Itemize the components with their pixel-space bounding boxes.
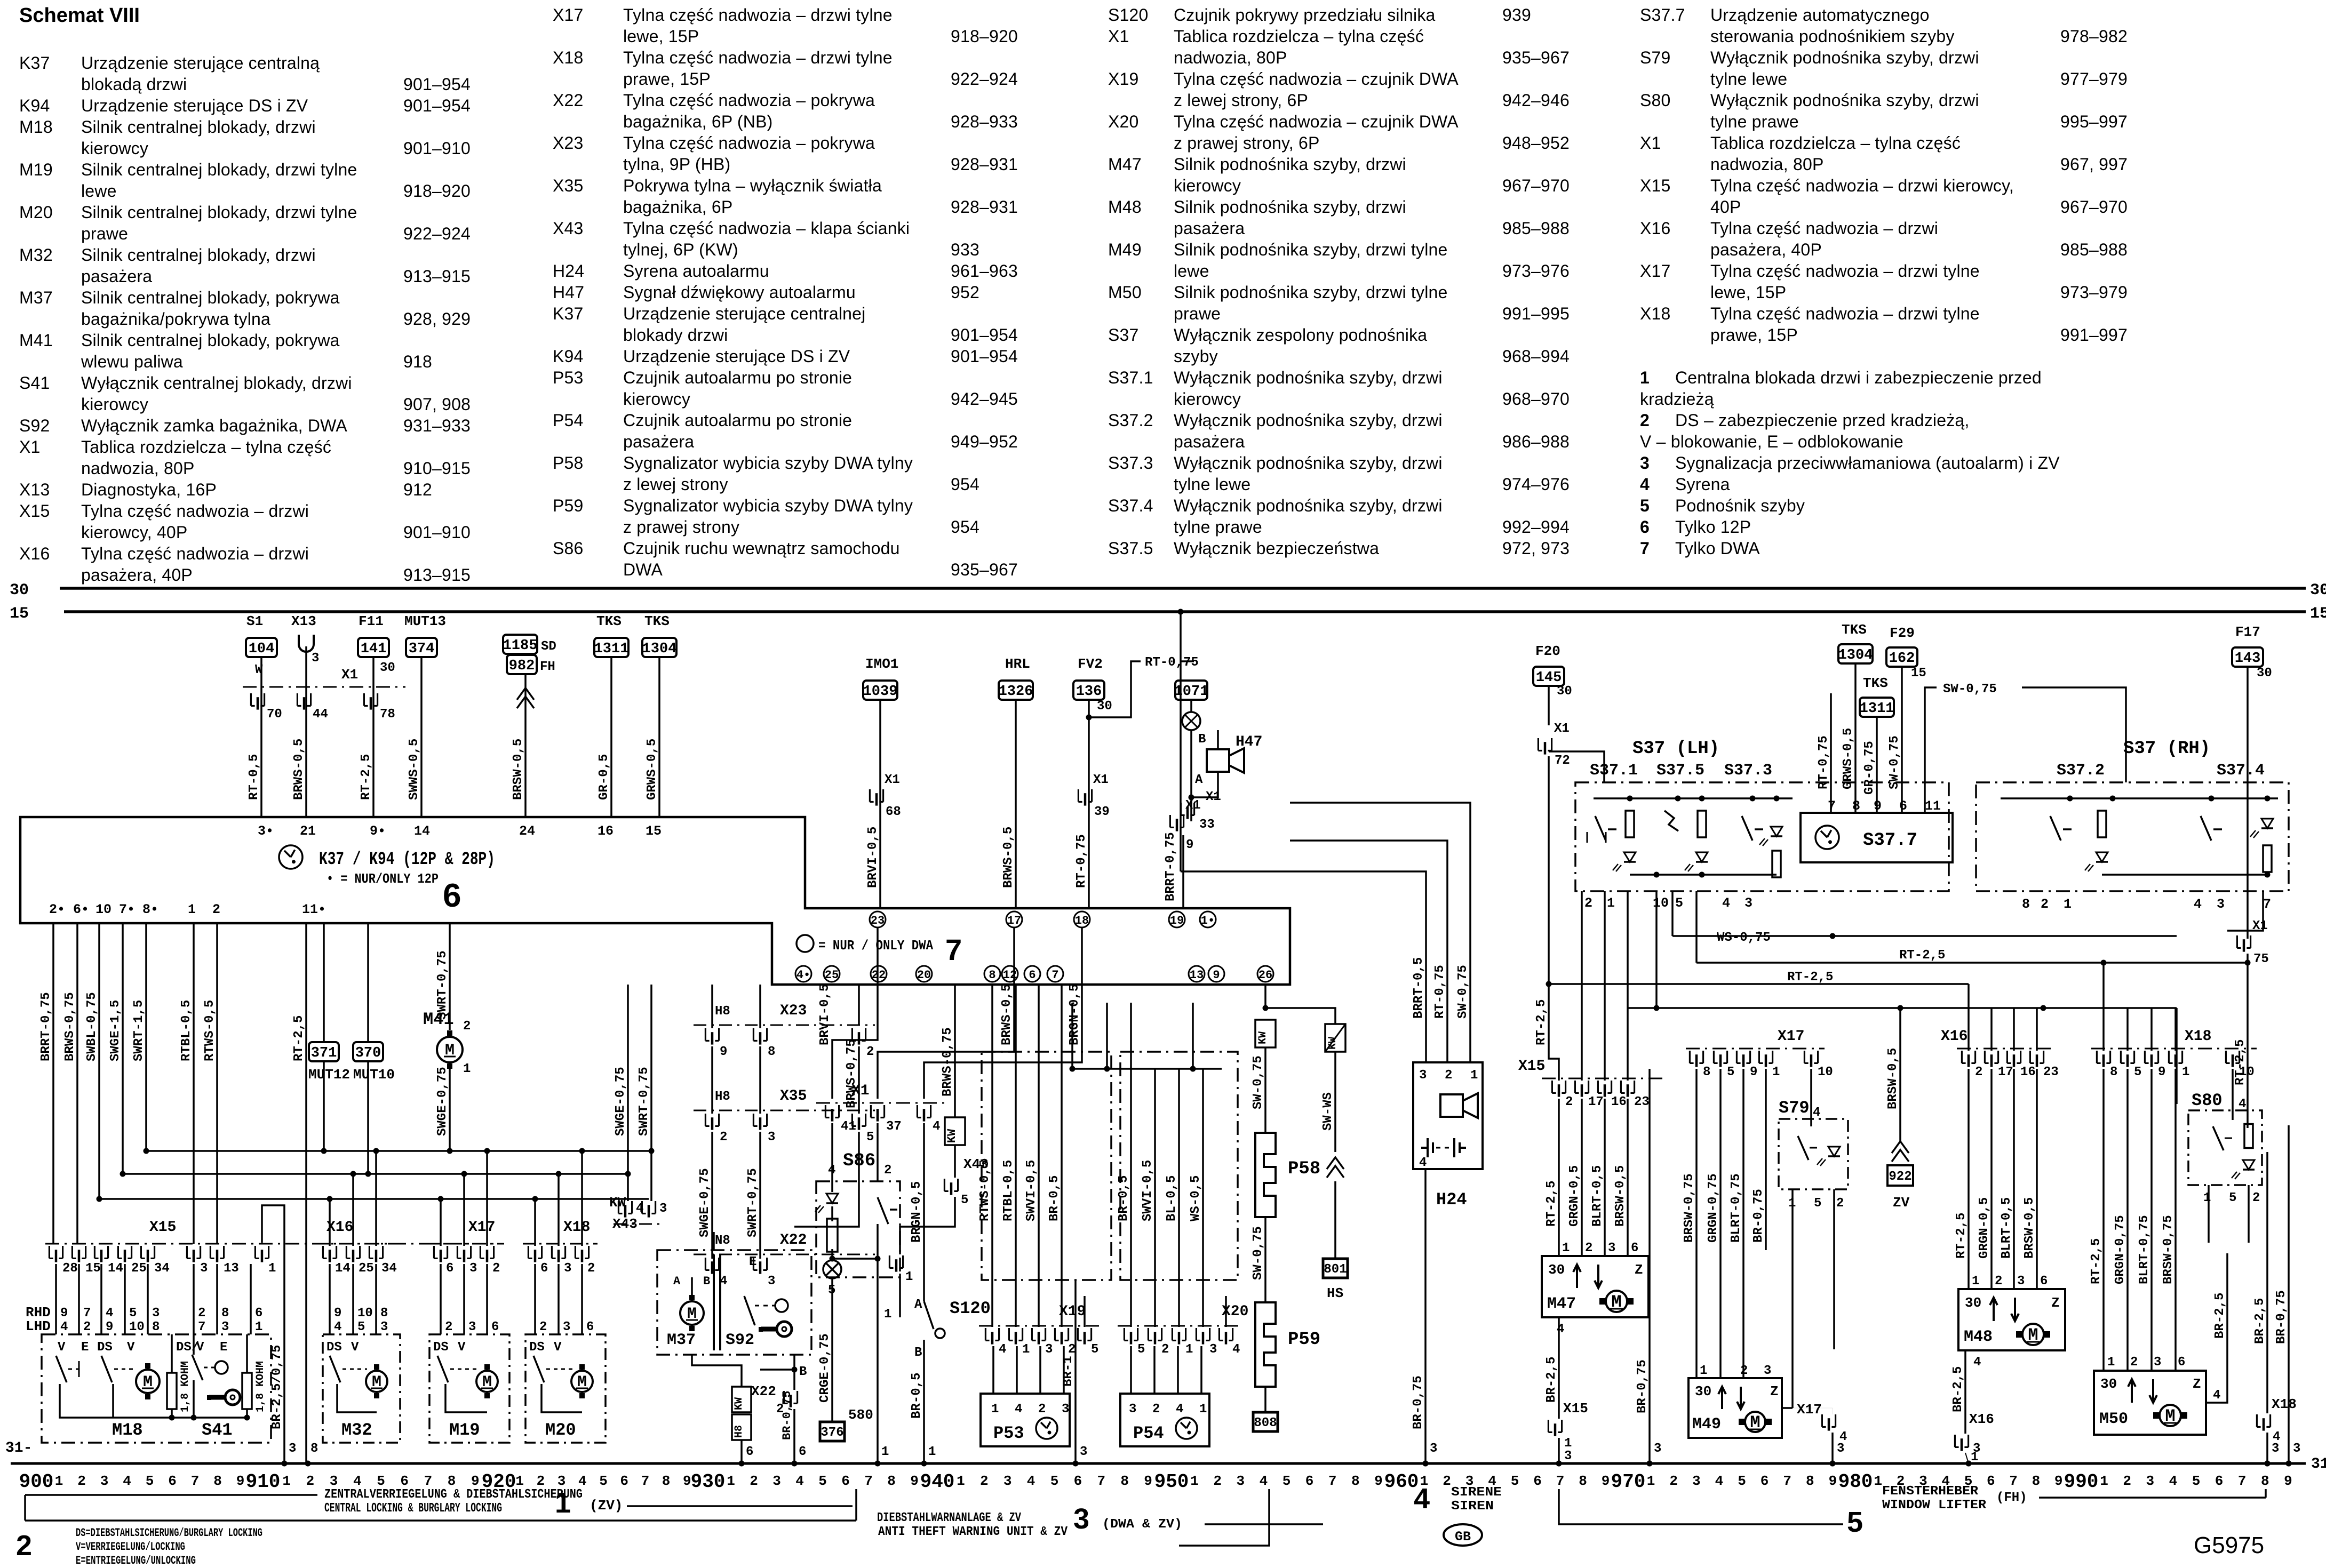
svg-text:KW: KW: [609, 1195, 626, 1211]
svg-text:1: 1: [2064, 897, 2072, 912]
svg-text:H8: H8: [715, 1090, 730, 1104]
S37.4 switch LED resistor: [2201, 816, 2211, 841]
svg-text:4: 4: [1414, 1483, 1430, 1515]
wires from DWA pins down-right: [1265, 985, 1335, 1024]
svg-text:3: 3: [330, 1473, 338, 1489]
wire BRSW-0.5 with chevron to K37 pin 24: [524, 674, 527, 817]
svg-text:RT-0,75: RT-0,75: [1074, 834, 1089, 888]
svg-text:CRGE-0,75: CRGE-0,75: [818, 1333, 832, 1403]
svg-text:8: 8: [152, 1320, 160, 1334]
svg-text:30: 30: [380, 661, 395, 675]
svg-text:= NUR / ONLY DWA: = NUR / ONLY DWA: [818, 938, 933, 954]
connector 922 ZV: [1892, 1141, 1909, 1162]
svg-text:H8: H8: [715, 1004, 730, 1019]
svg-text:S79: S79: [1779, 1098, 1810, 1118]
svg-text:RT-0,5: RT-0,5: [247, 754, 261, 800]
svg-text:16: 16: [598, 823, 614, 839]
svg-text:DIEBSTAHLWARNANLAGE & ZV: DIEBSTAHLWARNANLAGE & ZV: [877, 1511, 1021, 1525]
svg-text:RT-0,75: RT-0,75: [1433, 965, 1447, 1019]
siren H24 box: [1413, 1062, 1483, 1169]
svg-text:Z: Z: [2193, 1376, 2201, 1392]
horizontal distribution line middle (SWGE): [123, 1173, 628, 1175]
svg-text:GRGN-0,75: GRGN-0,75: [2113, 1215, 2128, 1284]
svg-text:2: 2: [1565, 1095, 1573, 1109]
breakage sensor P58: [1255, 1133, 1276, 1217]
svg-text:2: 2: [1068, 1342, 1076, 1357]
wires below S79: [1791, 1189, 1794, 1291]
svg-text:4: 4: [1973, 1355, 1981, 1370]
svg-text:9: 9: [2054, 1473, 2063, 1489]
svg-text:990: 990: [2064, 1471, 2099, 1493]
svg-text:2: 2: [539, 1320, 547, 1334]
svg-text:HS: HS: [1327, 1285, 1343, 1301]
svg-text:1: 1: [188, 902, 196, 917]
legend column 1: [19, 54, 50, 72]
svg-text:GB: GB: [1455, 1529, 1471, 1545]
svg-text:3: 3: [468, 1320, 476, 1334]
svg-text:2: 2: [2252, 1191, 2260, 1205]
svg-text:4: 4: [334, 1320, 341, 1334]
svg-text:5: 5: [2192, 1473, 2201, 1489]
wire F17 down right edge: [2247, 667, 2249, 939]
svg-text:RTWS-0,5: RTWS-0,5: [203, 1000, 217, 1061]
svg-text:13: 13: [1190, 969, 1204, 982]
svg-text:WS-0,75: WS-0,75: [1717, 931, 1771, 945]
svg-text:2: 2: [1213, 1473, 1222, 1489]
motor M37: [680, 1301, 704, 1325]
svg-text:8: 8: [2022, 897, 2030, 912]
svg-text:BR-0,5: BR-0,5: [1047, 1175, 1062, 1221]
svg-text:16: 16: [1611, 1095, 1627, 1109]
svg-text:30: 30: [2257, 666, 2272, 681]
svg-text:(DWA & ZV): (DWA & ZV): [1102, 1517, 1182, 1532]
svg-text:MUT12: MUT12: [308, 1067, 350, 1083]
svg-text:SWGE-0,75: SWGE-0,75: [435, 1067, 450, 1136]
svg-text:1304: 1304: [642, 641, 677, 657]
svg-text:3: 3: [1073, 1503, 1089, 1535]
svg-text:31: 31: [2311, 1456, 2326, 1473]
rail junction dots: [282, 1461, 288, 1467]
svg-text:7: 7: [198, 1320, 205, 1334]
svg-text:RT-2,5: RT-2,5: [2089, 1238, 2104, 1284]
wire RT-0.75 FV2 to pin 18: [1088, 700, 1090, 908]
lock motor M32 dashed box: [323, 1334, 400, 1443]
svg-text:S37.5: S37.5: [1656, 762, 1704, 780]
inner bus in S37 LH: [1594, 797, 1793, 799]
bottom bus S37 RH: [2102, 874, 2267, 876]
svg-text:P54: P54: [1133, 1423, 1164, 1443]
svg-text:DS=DIEBSTAHLSICHERUNG/BURGLARY: DS=DIEBSTAHLSICHERUNG/BURGLARY LOCKING: [76, 1526, 262, 1540]
svg-text:RT-2,5: RT-2,5: [1787, 970, 1833, 985]
wire BR-0.75 from X17 to rail: [1648, 1069, 1651, 1463]
svg-text:5: 5: [1675, 895, 1683, 911]
svg-text:982: 982: [509, 658, 535, 674]
svg-text:BR-0,75: BR-0,75: [780, 1391, 794, 1440]
svg-text:4: 4: [1176, 1402, 1183, 1417]
svg-text:2: 2: [16, 1530, 32, 1562]
svg-text:3: 3: [1654, 1442, 1661, 1456]
svg-text:5: 5: [1137, 1342, 1145, 1357]
svg-text:ANTI THEFT WARNING UNIT & ZV: ANTI THEFT WARNING UNIT & ZV: [878, 1525, 1068, 1539]
svg-text:DS/: DS/: [176, 1340, 199, 1355]
wire RT-0.5 from S1 to K37 pin 3: [260, 657, 262, 817]
svg-text:BRWS-0,75: BRWS-0,75: [63, 992, 77, 1061]
svg-text:8: 8: [2032, 1473, 2041, 1489]
svg-text:10: 10: [1653, 895, 1669, 911]
svg-text:MUT10: MUT10: [353, 1067, 395, 1083]
svg-text:4: 4: [106, 1306, 113, 1321]
svg-text:S37.4: S37.4: [2217, 762, 2265, 780]
wire BRVI-0.5 from IMO1 down to pin 23: [879, 700, 881, 908]
svg-text:1: 1: [268, 1261, 276, 1276]
svg-text:S37.2: S37.2: [2057, 762, 2105, 780]
svg-text:E: E: [749, 1255, 756, 1269]
svg-text:BRGN-0,5: BRGN-0,5: [1068, 984, 1082, 1045]
svg-text:3: 3: [1837, 1442, 1844, 1456]
svg-text:SWGE-1,5: SWGE-1,5: [108, 1000, 123, 1061]
svg-text:S1: S1: [246, 613, 263, 629]
svg-text:GRGN-0,5: GRGN-0,5: [1567, 1165, 1582, 1227]
svg-text:BLRT-0,75: BLRT-0,75: [1729, 1173, 1743, 1243]
svg-text:2: 2: [445, 1320, 452, 1334]
wire SW-0.75 elbow from pin 11: [1925, 687, 1937, 813]
svg-text:6: 6: [400, 1473, 409, 1489]
svg-text:25: 25: [131, 1261, 147, 1276]
legend: circle = NUR / ONLY DWA 7: [796, 935, 814, 952]
svg-text:Z: Z: [1635, 1262, 1643, 1278]
svg-text:4: 4: [1027, 1473, 1035, 1489]
svg-text:9: 9: [2284, 1473, 2292, 1489]
svg-text:16: 16: [2020, 1065, 2036, 1079]
svg-text:7: 7: [424, 1473, 433, 1489]
svg-text:F20: F20: [1535, 643, 1560, 659]
svg-text:11: 11: [1925, 798, 1941, 814]
connector 808: [1253, 1412, 1278, 1431]
svg-text:X1: X1: [851, 1083, 870, 1099]
svg-text:P58: P58: [1288, 1159, 1320, 1179]
svg-text:2: 2: [884, 1163, 891, 1178]
wires X17 left to M19: [440, 1264, 442, 1334]
svg-text:X15: X15: [1518, 1058, 1545, 1075]
svg-text:P53: P53: [993, 1423, 1024, 1443]
inner bus S37 RH: [2001, 797, 2278, 799]
svg-text:8: 8: [1703, 1065, 1710, 1079]
svg-text:1: 1: [991, 1402, 999, 1417]
svg-text:6: 6: [1533, 1473, 1542, 1489]
wires in P53 DWA box: [991, 985, 993, 1327]
svg-text:9: 9: [1144, 1473, 1152, 1489]
svg-text:1: 1: [282, 1473, 291, 1489]
svg-text:9: 9: [2158, 1065, 2165, 1079]
connector SD (1185) / FH (982): [503, 635, 537, 654]
svg-text:BR-2,5: BR-2,5: [2213, 1293, 2227, 1339]
svg-text:X16: X16: [326, 1219, 353, 1236]
svg-text:4: 4: [2169, 1473, 2178, 1489]
svg-text:4: 4: [1260, 1473, 1268, 1489]
svg-text:SWVI-0,5: SWVI-0,5: [1024, 1160, 1039, 1221]
svg-text:3: 3: [1003, 1473, 1012, 1489]
svg-text:1039: 1039: [863, 684, 898, 700]
svg-text:X15: X15: [149, 1219, 176, 1236]
switch and key S92: [744, 1296, 755, 1325]
svg-text:3: 3: [659, 1202, 667, 1216]
svg-text:4: 4: [933, 1119, 940, 1134]
connector X1 pin 44: [297, 693, 310, 710]
svg-text:910: 910: [246, 1471, 281, 1493]
svg-text:1: 1: [1972, 1274, 1979, 1289]
svg-text:SW-0,75: SW-0,75: [1943, 682, 1997, 697]
svg-text:6: 6: [620, 1473, 628, 1489]
svg-text:9•: 9•: [370, 823, 386, 839]
svg-text:M19: M19: [449, 1420, 480, 1440]
svg-text:X18: X18: [2272, 1396, 2297, 1412]
svg-text:KW: KW: [1327, 1037, 1339, 1050]
svg-text:23: 23: [1634, 1095, 1650, 1109]
svg-text:2•: 2•: [49, 902, 65, 917]
wire below pin 18 to X1 pin 4 / BRGN: [924, 928, 1082, 1099]
svg-text:(ZV): (ZV): [590, 1498, 623, 1514]
svg-text:S86: S86: [843, 1151, 875, 1171]
svg-text:141: 141: [361, 641, 387, 657]
S37.3 LED resistor: [1771, 827, 1782, 836]
svg-text:WS-0,5: WS-0,5: [1189, 1175, 1203, 1221]
wire BRVI-0.5 below pin 23 to X1 pin 41: [832, 928, 878, 1099]
svg-text:X18: X18: [2185, 1028, 2211, 1045]
svg-text:9: 9: [60, 1306, 68, 1321]
svg-text:6: 6: [586, 1320, 594, 1334]
S41 resistor 1.8 KOHM right: [242, 1373, 252, 1409]
svg-text:8•: 8•: [142, 902, 158, 917]
svg-text:ZENTRALVERRIEGELUNG & DIEBSTAH: ZENTRALVERRIEGELUNG & DIEBSTAHLSICHERUNG: [324, 1487, 583, 1502]
svg-text:BR-0,75: BR-0,75: [2274, 1290, 2289, 1344]
svg-text:5: 5: [1050, 1473, 1059, 1489]
S41 bottom wire: [172, 1417, 247, 1419]
section 4 bracket: [1179, 1489, 1269, 1546]
svg-text:6: 6: [1074, 1473, 1082, 1489]
svg-text:SIRENE: SIRENE: [1451, 1485, 1502, 1500]
svg-text:SW-0,75: SW-0,75: [1251, 1226, 1265, 1280]
legend column 4: [1640, 6, 1685, 24]
svg-text:N8: N8: [715, 1234, 730, 1248]
svg-text:3: 3: [2293, 1442, 2300, 1456]
svg-text:145: 145: [1536, 670, 1562, 686]
svg-text:30: 30: [1548, 1262, 1565, 1278]
svg-text:10: 10: [95, 902, 111, 917]
svg-text:371: 371: [311, 1045, 337, 1061]
wire BRRT-0.75 to pin 19: [1182, 835, 1184, 908]
svg-text:28: 28: [62, 1261, 78, 1276]
svg-text:BR-0,75: BR-0,75: [1635, 1359, 1650, 1413]
svg-text:SW-WS: SW-WS: [1321, 1092, 1335, 1131]
svg-text:V: V: [127, 1340, 135, 1355]
svg-text:9: 9: [1374, 1473, 1383, 1489]
svg-text:K37 / K94 (12P & 28P): K37 / K94 (12P & 28P): [319, 850, 495, 870]
svg-text:3: 3: [1973, 1442, 1980, 1456]
svg-text:X1: X1: [1093, 773, 1109, 787]
svg-text:8: 8: [2261, 1473, 2269, 1489]
svg-text:BR-0,5: BR-0,5: [1117, 1175, 1131, 1221]
svg-text:FH: FH: [540, 660, 555, 674]
svg-text:9: 9: [1829, 1473, 1837, 1489]
svg-text:6: 6: [443, 877, 461, 914]
svg-text:TKS: TKS: [1842, 622, 1867, 638]
wire B junction to X22: [760, 1355, 794, 1370]
svg-text:X18: X18: [563, 1219, 590, 1236]
svg-text:1: 1: [1199, 1402, 1207, 1417]
svg-text:GR-0,5: GR-0,5: [597, 754, 611, 800]
svg-text:BR-0,5: BR-0,5: [910, 1373, 924, 1419]
svg-text:TKS: TKS: [644, 613, 670, 629]
svg-text:8: 8: [2110, 1065, 2117, 1079]
svg-text:3: 3: [1564, 1449, 1572, 1463]
svg-text:2: 2: [1445, 1068, 1452, 1083]
svg-text:X13: X13: [291, 613, 316, 629]
S37.7 control box: [1801, 813, 1953, 862]
svg-text:1: 1: [1470, 1068, 1478, 1083]
svg-text:1: 1: [881, 1445, 889, 1459]
switch in S86: [878, 1197, 888, 1224]
svg-text:1: 1: [928, 1445, 936, 1459]
svg-text:70: 70: [267, 707, 282, 722]
lamp in S86: [823, 1260, 841, 1278]
svg-text:1: 1: [884, 1307, 891, 1322]
svg-text:3: 3: [221, 1320, 229, 1334]
bus line 15: [64, 610, 2306, 613]
svg-text:F17: F17: [2235, 624, 2260, 640]
wire M50 pin4 to right: [2206, 1355, 2227, 1403]
svg-text:4: 4: [123, 1473, 131, 1489]
svg-text:4: 4: [2213, 1388, 2220, 1403]
svg-text:7: 7: [1556, 1473, 1565, 1489]
svg-text:BR-2,5/0,75: BR-2,5/0,75: [270, 1345, 284, 1429]
svg-text:1: 1: [1772, 1065, 1780, 1079]
wires X18 down: [2102, 1069, 2105, 1296]
svg-text:SWRT-0,75: SWRT-0,75: [746, 1168, 760, 1237]
svg-text:6: 6: [1761, 1473, 1769, 1489]
svg-text:3: 3: [380, 1320, 388, 1334]
wire from bus15 tap down to H24 pin 3: [1181, 871, 1426, 1062]
svg-text:V: V: [554, 1340, 562, 1355]
clock symbol inside K37: [279, 845, 302, 869]
svg-text:BRWS-0,75: BRWS-0,75: [941, 1027, 955, 1097]
window motor M50 box: [2094, 1371, 2206, 1435]
svg-text:BRRT-0,75: BRRT-0,75: [1164, 832, 1178, 901]
svg-text:X17: X17: [1797, 1402, 1822, 1418]
svg-text:V: V: [351, 1340, 359, 1355]
svg-text:1: 1: [2100, 1473, 2108, 1489]
svg-text:X1: X1: [1554, 722, 1570, 736]
svg-text:3: 3: [1744, 895, 1753, 911]
window motor M48 box: [1958, 1289, 2065, 1350]
svg-text:SWRT-0,75: SWRT-0,75: [637, 1067, 651, 1136]
svg-text:136: 136: [1076, 684, 1102, 700]
svg-text:13: 13: [224, 1261, 239, 1276]
svg-text:RTBL-0,5: RTBL-0,5: [179, 1000, 194, 1061]
crossed KW box wire: [1325, 1024, 1345, 1052]
svg-text:H24: H24: [1436, 1190, 1467, 1210]
window motor M49 box: [1688, 1378, 1782, 1438]
svg-text:2: 2: [2123, 1473, 2131, 1489]
svg-text:E: E: [220, 1340, 227, 1355]
svg-text:75: 75: [2253, 952, 2269, 966]
svg-text:SWGE-0,75: SWGE-0,75: [614, 1067, 628, 1136]
wires into S86: [831, 1123, 833, 1181]
svg-text:9: 9: [236, 1473, 245, 1489]
LED in S86: [831, 1181, 833, 1192]
svg-text:2: 2: [1038, 1402, 1046, 1417]
svg-text:7: 7: [864, 1473, 873, 1489]
svg-text:7: 7: [1097, 1473, 1105, 1489]
svg-text:6: 6: [1029, 969, 1035, 982]
wires X15 into M18/S41 with pin numbers: [55, 1264, 57, 1334]
svg-text:19: 19: [1170, 914, 1184, 927]
svg-text:S41: S41: [202, 1420, 233, 1440]
svg-text:8: 8: [213, 1473, 222, 1489]
svg-text:5: 5: [1091, 1342, 1098, 1357]
svg-text:4: 4: [578, 1473, 587, 1489]
bus line 30 (top supply rail): [60, 587, 2306, 590]
control unit K37/K94 box outline: [20, 817, 1290, 985]
svg-text:6: 6: [2178, 1355, 2185, 1370]
svg-text:M49: M49: [1692, 1415, 1721, 1434]
svg-text:A: A: [1195, 773, 1203, 787]
svg-text:3: 3: [469, 1261, 477, 1276]
svg-text:9: 9: [720, 1045, 727, 1059]
svg-text:X17: X17: [468, 1219, 495, 1236]
svg-text:7: 7: [945, 933, 962, 966]
svg-text:1: 1: [2203, 1191, 2211, 1205]
svg-text:78: 78: [380, 707, 395, 722]
inner bottom bus S37 LH: [1630, 874, 1777, 876]
svg-text:4: 4: [828, 1163, 835, 1178]
switch unit S37 LH dashed box: [1575, 782, 1949, 891]
svg-text:SWGE-0,75: SWGE-0,75: [698, 1168, 712, 1237]
svg-text:BR-2,5: BR-2,5: [1544, 1357, 1559, 1403]
svg-text:3: 3: [563, 1320, 570, 1334]
svg-text:3: 3: [2146, 1473, 2154, 1489]
svg-text:30: 30: [1557, 684, 1572, 699]
svg-text:GRWS-0,5: GRWS-0,5: [1841, 728, 1855, 789]
svg-text:21: 21: [300, 823, 316, 839]
svg-text:3: 3: [1062, 1402, 1069, 1417]
svg-text:S92: S92: [726, 1331, 754, 1349]
svg-text:14: 14: [414, 823, 430, 839]
svg-text:X19: X19: [1059, 1303, 1086, 1320]
svg-text:B: B: [799, 1365, 807, 1379]
svg-text:6: 6: [799, 1445, 806, 1459]
svg-text:2: 2: [492, 1261, 500, 1276]
svg-text:E=ENTRIEGELUNG/UNLOCKING: E=ENTRIEGELUNG/UNLOCKING: [76, 1554, 196, 1567]
wire across to H24 pin 1: [1290, 803, 1470, 1062]
wires in P54 DWA box: [1130, 1003, 1132, 1327]
junction line lower right: [1628, 1007, 2177, 1009]
S37.2 switch resistor LED: [2050, 816, 2061, 841]
svg-text:V: V: [458, 1340, 466, 1355]
svg-text:B: B: [1198, 732, 1206, 747]
svg-text:5: 5: [357, 1320, 365, 1334]
svg-text:30: 30: [1097, 699, 1112, 714]
connector X1 pin 78: [364, 693, 377, 710]
svg-text:5: 5: [2134, 1065, 2141, 1079]
svg-text:BRRT-0,5: BRRT-0,5: [1412, 957, 1426, 1019]
svg-text:6: 6: [446, 1261, 453, 1276]
svg-text:3: 3: [768, 1130, 775, 1145]
svg-text:FENSTERHEBER: FENSTERHEBER: [1882, 1484, 1979, 1499]
svg-text:X1: X1: [885, 773, 900, 787]
wire SWGE-0.75 vertical: [627, 985, 629, 1201]
svg-text:TKS: TKS: [1863, 675, 1888, 691]
svg-text:BLRT-0,5: BLRT-0,5: [2000, 1197, 2014, 1259]
